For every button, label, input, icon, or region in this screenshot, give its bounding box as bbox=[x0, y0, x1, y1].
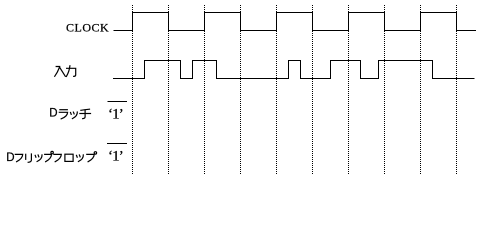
D-flip-flop output overline ('1' level mark) bbox=[107, 143, 127, 145]
glyph ッ bbox=[70, 113, 73, 115]
glyph ッ bbox=[76, 155, 79, 157]
CLOCK waveform bbox=[114, 13, 477, 31]
glyph ッ bbox=[34, 155, 37, 157]
glyph フ bbox=[54, 154, 61, 161]
glyph 入 bbox=[56, 67, 65, 77]
gridline t3 bbox=[204, 5, 206, 174]
glyph フ bbox=[15, 154, 22, 161]
gridline t1 bbox=[132, 5, 134, 174]
gridline t5 bbox=[276, 5, 278, 174]
svg-text:CLOCK: CLOCK bbox=[66, 21, 109, 35]
gridline t8 bbox=[384, 5, 386, 174]
glyph プ bbox=[87, 154, 94, 161]
input waveform bbox=[113, 61, 475, 79]
svg-text:D: D bbox=[49, 108, 57, 120]
svg-text:‘1’: ‘1’ bbox=[108, 149, 123, 165]
gridline t6 bbox=[312, 5, 314, 174]
gridline t10 bbox=[456, 5, 458, 174]
glyph ロ bbox=[65, 154, 73, 161]
D-latch output overline ('1' level mark) bbox=[108, 101, 128, 103]
gridline t2 bbox=[168, 5, 170, 174]
glyph チ bbox=[81, 109, 90, 110]
clock edge dotted gridlines x=132..456 bbox=[133, 5, 457, 174]
svg-text:‘1’: ‘1’ bbox=[108, 107, 123, 123]
svg-text:D: D bbox=[6, 152, 14, 164]
gridline t9 bbox=[420, 5, 422, 174]
gridline t4 bbox=[240, 5, 242, 174]
glyph 力 bbox=[66, 66, 70, 77]
glyph ラ bbox=[60, 109, 67, 111]
gridline t7 bbox=[348, 5, 350, 174]
label 入力 (input) drawn as strokes bbox=[55, 66, 76, 77]
glyph プ bbox=[45, 154, 52, 161]
glyph リ bbox=[25, 154, 27, 159]
